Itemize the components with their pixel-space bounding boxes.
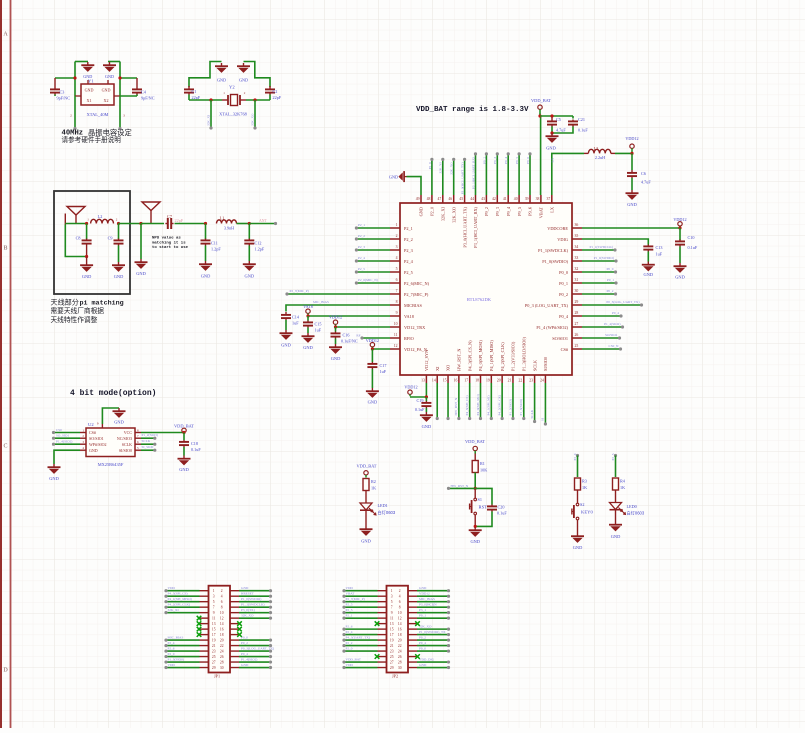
svg-text:P3_0(HCI)N: P3_0(HCI)N — [419, 602, 437, 606]
svg-text:P1_4(SIO2): P1_4(SIO2) — [604, 322, 620, 326]
wire JP2 pin 8 P3_0(HCI)N — [417, 606, 448, 608]
wire net P9_2 — [485, 154, 487, 195]
junction — [204, 222, 207, 225]
svg-text:25: 25 — [575, 344, 579, 348]
svg-text:10: 10 — [398, 611, 402, 615]
svg-text:LX: LX — [550, 206, 555, 213]
svg-text:P3_1: P3_1 — [419, 608, 426, 612]
svg-text:GND: GND — [419, 207, 424, 216]
svg-text:VDDCORE: VDDCORE — [547, 226, 568, 231]
svg-text:49: 49 — [416, 197, 420, 201]
svg-text:需要天线厂商根据: 需要天线厂商根据 — [51, 306, 105, 315]
svg-text:16: 16 — [398, 628, 402, 632]
wire JP1 pin 26 P0_4 — [239, 656, 270, 658]
wire bottom pin 17 — [469, 383, 471, 419]
svg-text:32K_XI: 32K_XI — [168, 608, 180, 612]
svg-text:GND: GND — [201, 274, 211, 279]
capacitor C10 — [679, 228, 681, 240]
svg-text:P0_2: P0_2 — [241, 641, 248, 645]
ground — [626, 190, 639, 200]
svg-text:NPO value as: NPO value as — [152, 236, 181, 241]
svg-text:23: 23 — [212, 650, 216, 654]
svg-text:GND: GND — [361, 539, 371, 544]
svg-text:SO/SIO1: SO/SIO1 — [552, 336, 568, 341]
svg-text:XO: XO — [446, 365, 451, 371]
svg-text:13: 13 — [421, 379, 425, 383]
no-connect JP1 pin 15 — [197, 627, 202, 632]
no-connect JP2 pin 25 — [375, 654, 380, 659]
svg-text:3: 3 — [123, 114, 125, 118]
svg-text:1K: 1K — [371, 486, 376, 491]
svg-text:SO/SIO1: SO/SIO1 — [605, 333, 618, 337]
svg-text:32K_XO: 32K_XO — [419, 624, 432, 628]
svg-text:9: 9 — [391, 611, 393, 615]
wire U2 gnd — [54, 450, 80, 464]
ground — [302, 333, 315, 343]
svg-text:X1: X1 — [86, 98, 91, 103]
wire JP2 pin 5 P2_7(MIC_P) — [345, 601, 378, 603]
capacitor C7 — [165, 218, 173, 229]
svg-text:P0_0: P0_0 — [607, 267, 614, 271]
svg-text:48: 48 — [427, 197, 431, 201]
svg-text:GND: GND — [419, 586, 427, 590]
svg-text:30: 30 — [575, 289, 579, 293]
svg-text:VDD12: VDD12 — [329, 315, 342, 320]
svg-text:P9_6: P9_6 — [526, 157, 530, 164]
wire JP1 pin 24 P0_3(LOG_UART_TX) — [239, 650, 270, 652]
svg-text:P2_7(MIC_P): P2_7(MIC_P) — [290, 289, 309, 293]
wire net P1_0(SWDIO) — [582, 260, 616, 262]
svg-text:26: 26 — [575, 333, 579, 337]
svg-text:P0_2: P0_2 — [559, 292, 568, 297]
svg-text:23: 23 — [390, 650, 394, 654]
svg-text:C3: C3 — [60, 90, 65, 95]
svg-text:4: 4 — [396, 256, 398, 260]
ground — [280, 330, 293, 340]
svg-text:ANT: ANT — [259, 219, 267, 223]
svg-text:15: 15 — [212, 628, 216, 632]
svg-text:P1_4(SIO2): P1_4(SIO2) — [56, 440, 72, 444]
svg-text:KEY0: KEY0 — [581, 510, 593, 515]
wire JP1 pin 29 VDD — [167, 667, 200, 669]
wire JP1 pin 12 32K_XO — [239, 617, 270, 619]
wire net P9_6 — [529, 154, 531, 195]
resistor R4 — [613, 478, 619, 490]
svg-text:21: 21 — [508, 379, 512, 383]
svg-text:VA18: VA18 — [303, 304, 313, 309]
svg-text:2.2uH: 2.2uH — [595, 155, 605, 160]
svg-text:GND: GND — [179, 467, 189, 472]
svg-text:7: 7 — [396, 289, 398, 293]
svg-text:GND: GND — [82, 274, 92, 279]
wire net P2_3 — [356, 249, 390, 251]
svg-text:XTAL_40M: XTAL_40M — [87, 112, 109, 117]
wire — [75, 61, 88, 63]
wire bottom pin 16 — [458, 383, 460, 419]
svg-text:P1_3(SIO0): P1_3(SIO0) — [168, 657, 184, 661]
wire U2 net SI_SIO0 — [141, 449, 154, 451]
svg-text:10: 10 — [394, 322, 398, 326]
svg-text:GND: GND — [281, 343, 291, 348]
svg-text:1: 1 — [391, 589, 393, 593]
wire JP2 pin 27 VDD_BAT — [345, 661, 378, 663]
svg-text:P3_0(HCI_UART_TX): P3_0(HCI_UART_TX) — [461, 162, 465, 194]
ground — [178, 456, 191, 466]
svg-text:P4_3(UART_TX): P4_3(UART_TX) — [346, 635, 370, 639]
svg-text:20: 20 — [398, 639, 402, 643]
wire net 32K_XO — [453, 159, 455, 195]
no-connect JP1 pin 16 — [237, 627, 242, 632]
svg-text:C19: C19 — [417, 398, 424, 403]
svg-text:P2_3: P2_3 — [404, 248, 413, 253]
svg-text:4.7uF: 4.7uF — [641, 180, 651, 185]
antenna matching box — [54, 191, 130, 294]
svg-text:GND: GND — [114, 420, 124, 425]
svg-text:11: 11 — [394, 333, 398, 337]
wire JP1 pin 23 P2_6 — [167, 650, 200, 652]
wire VBAT — [540, 116, 542, 195]
ground — [48, 464, 61, 474]
svg-text:GND: GND — [627, 202, 637, 207]
svg-text:VCC: VCC — [124, 430, 133, 435]
svg-text:5: 5 — [391, 600, 393, 604]
svg-text:HW_RST_N: HW_RST_N — [454, 397, 458, 415]
svg-text:27: 27 — [390, 661, 394, 665]
svg-text:P2_3: P2_3 — [346, 608, 353, 612]
svg-text:P9_3: P9_3 — [495, 207, 500, 216]
svg-text:28: 28 — [398, 661, 402, 665]
svg-text:P4_3(SPI_CS_N): P4_3(SPI_CS_N) — [467, 340, 472, 371]
inductor L3 — [584, 152, 588, 154]
wire — [539, 114, 541, 117]
wire JP2 pin 16 32K_XO — [417, 628, 448, 630]
capacitor C14 — [281, 312, 291, 320]
svg-text:P2_7(MIC_P): P2_7(MIC_P) — [346, 597, 365, 601]
wire JP1 pin 5 P4_1(SPI_MISO) — [167, 601, 200, 603]
svg-text:P4_3(SPI_CS): P4_3(SPI_CS) — [168, 591, 188, 595]
svg-text:C8: C8 — [76, 236, 81, 241]
svg-text:GND: GND — [105, 74, 114, 79]
wire net P9_4 — [507, 154, 509, 195]
svg-text:37: 37 — [547, 197, 551, 201]
svg-text:P1_0(SWDIO): P1_0(SWDIO) — [241, 597, 261, 601]
svg-text:19: 19 — [390, 639, 394, 643]
wire JP1 pin 28 P1_4(SIO2) — [239, 661, 270, 663]
svg-text:SI_SIO0: SI_SIO0 — [142, 445, 154, 449]
svg-text:CS#: CS# — [89, 430, 96, 435]
svg-text:MIC_BIAS: MIC_BIAS — [419, 597, 435, 601]
svg-text:XTAL_32K768: XTAL_32K768 — [219, 112, 248, 117]
no-connect JP2 pin 26 — [415, 654, 420, 659]
svg-text:1.2pF: 1.2pF — [255, 247, 265, 252]
svg-text:P2_5: P2_5 — [404, 270, 413, 275]
svg-text:P0_4: P0_4 — [419, 641, 426, 645]
svg-text:P1_0(SWDIO): P1_0(SWDIO) — [542, 259, 568, 264]
svg-text:S1: S1 — [478, 497, 482, 502]
svg-text:C: C — [3, 444, 7, 450]
sheet border outer line — [0, 0, 2, 728]
svg-text:GND: GND — [245, 274, 255, 279]
svg-text:C2: C2 — [273, 89, 278, 94]
svg-text:P2_5: P2_5 — [346, 602, 353, 606]
svg-text:GND: GND — [331, 356, 341, 361]
svg-text:P2_0: P2_0 — [346, 646, 353, 650]
IC U1 bottom pins — [425, 375, 427, 383]
svg-text:B: B — [3, 246, 7, 252]
svg-text:1.2pF: 1.2pF — [211, 247, 221, 252]
svg-text:19: 19 — [486, 379, 490, 383]
svg-text:32K_XI: 32K_XI — [207, 114, 211, 126]
wire bottom pin 14 — [436, 383, 438, 419]
ground — [674, 263, 687, 273]
svg-text:GND: GND — [611, 534, 621, 539]
svg-text:VD12_TRX: VD12_TRX — [404, 325, 426, 330]
svg-text:5: 5 — [213, 600, 215, 604]
wire JP1 pin 19 MIC_BIAS — [167, 639, 200, 641]
connector JP2 body — [387, 586, 409, 673]
svg-text:11: 11 — [212, 617, 216, 621]
svg-text:15: 15 — [443, 379, 447, 383]
wire JP2 pin 15 P2_6 — [345, 628, 378, 630]
wire net P0_3(LOG_UART_TX) — [582, 304, 642, 306]
wire JP1 pin 2 GND — [239, 590, 270, 592]
wire JP2 pin 30 GND — [417, 667, 448, 669]
svg-text:MICBIAS: MICBIAS — [404, 303, 423, 308]
svg-text:P9_4: P9_4 — [506, 206, 511, 216]
wire net P9_3 — [496, 154, 498, 195]
svg-text:P1_2(SIO3): P1_2(SIO3) — [508, 399, 512, 415]
ground — [642, 262, 655, 272]
wire net P1_1(SWDCLK) — [582, 249, 615, 251]
antenna ANT1 — [65, 207, 85, 225]
wire net HW_RST_N — [449, 487, 475, 489]
capacitor C5 — [547, 117, 557, 127]
svg-text:VDIG: VDIG — [557, 237, 568, 242]
wire pin49 GND — [407, 177, 422, 195]
svg-text:16: 16 — [454, 379, 458, 383]
ground — [237, 63, 250, 73]
svg-text:19: 19 — [212, 639, 216, 643]
svg-text:C11: C11 — [211, 241, 218, 246]
wire net P0_1 — [582, 282, 616, 284]
wire JP2 pin 3 VBAT — [345, 595, 378, 597]
svg-text:P2_5: P2_5 — [358, 267, 365, 271]
svg-text:P0_3(LOG_UART_TX): P0_3(LOG_UART_TX) — [606, 300, 639, 304]
svg-text:P4_2(SPI_CK): P4_2(SPI_CK) — [497, 395, 501, 416]
svg-text:VDD_BAT: VDD_BAT — [356, 464, 376, 469]
svg-text:32K_XI: 32K_XI — [439, 162, 443, 174]
svg-text:P2_6: P2_6 — [346, 624, 353, 628]
svg-text:R1: R1 — [480, 461, 485, 466]
wire — [119, 96, 121, 128]
svg-text:29: 29 — [575, 300, 579, 304]
wire MICBIAS — [286, 305, 390, 312]
wire JP2 pin 29 VDD — [345, 667, 378, 669]
svg-text:P2_4: P2_4 — [573, 453, 577, 460]
capacitor C6 — [631, 153, 633, 170]
svg-text:C20: C20 — [498, 505, 505, 510]
svg-text:GND: GND — [419, 663, 427, 667]
svg-text:GND: GND — [241, 586, 249, 590]
ground — [113, 408, 126, 418]
svg-text:HRESET: HRESET — [241, 591, 255, 595]
svg-text:20: 20 — [497, 379, 501, 383]
svg-text:24: 24 — [540, 379, 544, 383]
svg-text:P2_6: P2_6 — [168, 646, 175, 650]
wire net P0_4 — [582, 315, 621, 317]
svg-text:VDD: VDD — [346, 586, 354, 590]
svg-text:X2: X2 — [103, 98, 108, 103]
wire JP2 pin 9 P2_3 — [345, 612, 378, 614]
svg-text:P1_0(SWDIO)_TX: P1_0(SWDIO)_TX — [419, 630, 446, 634]
wire JP1 pin 20 P0_0 — [239, 639, 270, 641]
wire JP1 pin 1 VDD — [167, 590, 200, 592]
svg-text:18: 18 — [398, 633, 402, 637]
svg-text:VDD12: VDD12 — [404, 385, 417, 390]
svg-text:P1_3(SIO0): P1_3(SIO0) — [519, 399, 523, 415]
svg-text:P0_1: P0_1 — [559, 281, 568, 286]
ground — [112, 262, 125, 272]
svg-text:P0_3 (LOG_UART_TX): P0_3 (LOG_UART_TX) — [525, 303, 569, 308]
IC U1 left pins — [390, 227, 400, 229]
svg-text:9pF/NC: 9pF/NC — [57, 96, 71, 101]
svg-text:P4_2(SPI_CLK): P4_2(SPI_CLK) — [500, 342, 505, 371]
svg-text:MIC_BIAS: MIC_BIAS — [313, 300, 329, 304]
capacitor C18 — [183, 433, 185, 441]
svg-text:24: 24 — [220, 650, 224, 654]
svg-text:21: 21 — [390, 644, 394, 648]
svg-text:P2_3: P2_3 — [358, 245, 365, 249]
resistor R2 — [363, 479, 369, 491]
svg-text:GND: GND — [368, 400, 378, 405]
svg-text:Y1: Y1 — [88, 79, 94, 84]
svg-text:0.1uF/NC: 0.1uF/NC — [341, 339, 358, 344]
svg-text:P2_2: P2_2 — [358, 234, 365, 238]
svg-text:4 bit mode(option): 4 bit mode(option) — [70, 389, 156, 398]
svg-text:P0_1: P0_1 — [419, 613, 426, 617]
svg-text:JP2: JP2 — [392, 674, 398, 679]
ground — [135, 259, 148, 269]
ground — [615, 510, 617, 522]
svg-text:13: 13 — [390, 622, 394, 626]
svg-text:VDD: VDD — [168, 663, 176, 667]
svg-text:32K_XO: 32K_XO — [251, 113, 255, 126]
capacitor C8 — [86, 224, 88, 240]
svg-text:15: 15 — [390, 628, 394, 632]
svg-text:0.1uF: 0.1uF — [415, 407, 425, 412]
svg-text:GND: GND — [217, 78, 226, 83]
wire — [140, 224, 142, 260]
wire net P0_0 — [582, 271, 616, 273]
wire JP2 pin 10 P3_1 — [417, 612, 448, 614]
svg-text:P9_5: P9_5 — [515, 157, 519, 164]
svg-text:P2_6(MIC_N): P2_6(MIC_N) — [358, 278, 378, 282]
wire U2 net SCLK — [141, 443, 154, 445]
wire net 32K_XI — [210, 100, 212, 128]
svg-text:VDD: VDD — [346, 663, 354, 667]
svg-text:9: 9 — [213, 611, 215, 615]
wire — [65, 223, 86, 225]
svg-text:12: 12 — [394, 344, 398, 348]
svg-text:29: 29 — [390, 666, 394, 670]
wire — [65, 225, 86, 257]
wire — [189, 62, 222, 88]
svg-text:46: 46 — [448, 197, 452, 201]
svg-text:VA18: VA18 — [404, 314, 414, 319]
svg-text:1uF: 1uF — [656, 252, 663, 257]
svg-text:P0_3(LOG_UART_TX): P0_3(LOG_UART_TX) — [241, 646, 274, 650]
no-connect JP1 pin 17 — [197, 632, 202, 637]
svg-text:4: 4 — [221, 595, 223, 599]
no-connect JP2 pin 14 — [415, 621, 420, 626]
svg-text:GND: GND — [114, 274, 124, 279]
svg-text:34: 34 — [575, 245, 579, 249]
svg-text:C14: C14 — [292, 315, 300, 320]
svg-text:P0_0: P0_0 — [419, 646, 426, 650]
svg-text:P3_1(HCI_UART_RX): P3_1(HCI_UART_RX) — [471, 157, 475, 189]
svg-text:VDD12: VDD12 — [625, 136, 638, 141]
svg-text:P2_7(MIC_P): P2_7(MIC_P) — [404, 292, 429, 297]
wire net RF_IO — [362, 337, 390, 339]
svg-text:25: 25 — [390, 655, 394, 659]
svg-text:P2_0: P2_0 — [430, 207, 435, 216]
wire JP1 pin 30 GND — [239, 667, 270, 669]
junction — [630, 152, 633, 155]
svg-text:14: 14 — [220, 622, 224, 626]
ground — [550, 131, 553, 134]
svg-text:32K_XO: 32K_XO — [451, 207, 456, 223]
svg-text:RST: RST — [479, 505, 488, 510]
svg-text:SO_SIO1: SO_SIO1 — [56, 434, 69, 438]
svg-text:12: 12 — [398, 617, 402, 621]
svg-text:GND: GND — [389, 175, 398, 180]
ground — [243, 261, 256, 271]
LED LED0 — [615, 490, 617, 503]
wire JP2 pin 19 P4_3(UART_TX) — [345, 639, 378, 641]
wire JP1 pin 4 HRESET — [239, 595, 270, 597]
svg-text:30: 30 — [220, 666, 224, 670]
svg-text:VD12_SYN: VD12_SYN — [424, 350, 429, 371]
capacitor C15 — [307, 316, 309, 321]
svg-text:P0_4: P0_4 — [559, 314, 569, 319]
ground sideways — [399, 171, 407, 182]
IC U1 top pins — [420, 195, 422, 203]
svg-text:C1: C1 — [192, 89, 197, 94]
svg-text:P9_2: P9_2 — [484, 207, 489, 216]
svg-text:1uF: 1uF — [380, 369, 387, 374]
svg-text:7: 7 — [391, 606, 393, 610]
antenna ANT2 — [142, 202, 160, 224]
svg-text:P1_3(HOLD/SIO0): P1_3(HOLD/SIO0) — [521, 337, 526, 371]
svg-text:8: 8 — [399, 606, 401, 610]
wire — [108, 61, 120, 63]
svg-text:天线特性作调整: 天线特性作调整 — [51, 315, 98, 324]
connector JP1 body — [209, 586, 231, 673]
svg-text:26: 26 — [398, 655, 402, 659]
svg-text:39: 39 — [525, 197, 529, 201]
wire net P2_2 — [356, 238, 390, 240]
svg-text:P0_4: P0_4 — [612, 311, 619, 315]
resistor R3 — [575, 478, 581, 490]
wire — [246, 99, 270, 101]
svg-text:8: 8 — [221, 606, 223, 610]
wire net P3_1(HCI_UART_RX) — [475, 154, 477, 195]
svg-text:C16: C16 — [343, 333, 350, 338]
wire net 32K_XO — [254, 100, 256, 128]
wire bottom pin 23 — [534, 383, 536, 422]
svg-text:LX: LX — [551, 157, 555, 162]
svg-text:P1_2(SIO3): P1_2(SIO3) — [142, 433, 158, 437]
